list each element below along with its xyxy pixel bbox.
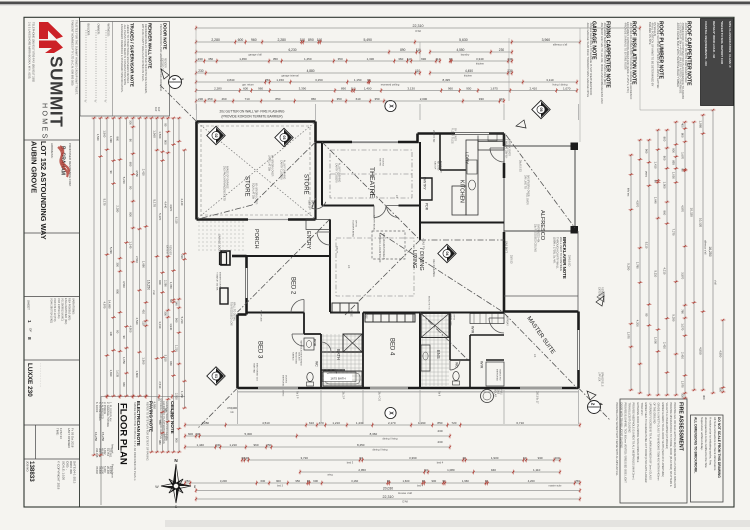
svg-text:3,150: 3,150 [315, 78, 323, 82]
svg-text:RENDER: RENDER [600, 287, 603, 297]
bottom dimension rows [185, 424, 580, 426]
svg-text:15,250: 15,250 [101, 432, 105, 442]
svg-text:3,960: 3,960 [542, 38, 551, 42]
ens wc [453, 372, 459, 381]
svg-text:PANTRY: PANTRY [423, 177, 427, 191]
svg-text:CKD: ,: CKD: , [65, 461, 69, 470]
svg-text:LOT 152 ASTOUNDING WAY: LOT 152 ASTOUNDING WAY [39, 141, 48, 240]
svg-text:6,230: 6,230 [289, 48, 297, 52]
svg-text:300: 300 [702, 395, 706, 400]
svg-text:GAS UP: GAS UP [433, 161, 436, 170]
svg-text:230: 230 [198, 97, 203, 101]
svg-text:COLINS: COLINS [381, 158, 383, 167]
svg-text:UPGRADE FLYSCREENS TO ALUMINIU: UPGRADE FLYSCREENS TO ALUMINIUM (MESH OF… [648, 403, 651, 481]
svg-text:10,320: 10,320 [689, 208, 693, 218]
svg-text:8: 8 [26, 337, 32, 340]
svg-text:BATH: BATH [336, 349, 341, 360]
svg-text:1,150: 1,150 [169, 282, 173, 289]
svg-text:250: 250 [208, 97, 213, 101]
svg-text:4,550: 4,550 [456, 48, 464, 52]
svg-text:LS: LS [395, 195, 399, 198]
svg-text:4,450: 4,450 [465, 69, 473, 73]
svg-text:4,200: 4,200 [636, 320, 640, 327]
svg-text:bed 3: bed 3 [277, 485, 284, 488]
svg-text:EMBER SEAL TO GARAGE PANEL LIF: EMBER SEAL TO GARAGE PANEL LIFT DOOR (4 … [644, 403, 647, 483]
svg-text:5,170: 5,170 [152, 199, 156, 207]
svg-text:460: 460 [222, 97, 227, 101]
svg-text:960: 960 [258, 86, 263, 90]
svg-text:*REFER TO SOIL REPORT FOR: *REFER TO SOIL REPORT FOR [720, 21, 724, 65]
svg-text:alfresco o'all: alfresco o'all [553, 43, 568, 47]
svg-text:2,950: 2,950 [358, 468, 366, 472]
svg-text:VARIATIONS:: VARIATIONS: [72, 298, 76, 315]
risers to dim rows [237, 390, 239, 424]
theatre front window [352, 141, 398, 143]
svg-text:90: 90 [116, 330, 120, 334]
svg-text:960: 960 [663, 210, 667, 215]
svg-text:VG 29/08/13 (KMC): VG 29/08/13 (KMC) [60, 298, 64, 321]
svg-text:690: 690 [421, 57, 426, 61]
svg-text:950: 950 [311, 97, 316, 101]
svg-text:BED 4: BED 4 [389, 338, 395, 356]
svg-text:4,880: 4,880 [307, 69, 315, 73]
svg-text:20c GUTTER ON WALL W/- FIRE FL: 20c GUTTER ON WALL W/- FIRE FLASHING [220, 110, 285, 114]
entry door [317, 232, 330, 245]
svg-text:NK- LISO: NK- LISO [436, 161, 438, 171]
svg-text:900: 900 [158, 280, 162, 285]
svg-text:VO#6 28/07/14 (SKE): VO#6 28/07/14 (SKE) [50, 298, 54, 323]
svg-text:MENTIONED CLG: MENTIONED CLG [255, 363, 257, 382]
svg-text:4,970: 4,970 [169, 204, 173, 211]
svg-text:EXTERNAL ROOF PLUMBING NON-COM: EXTERNAL ROOF PLUMBING NON-COMBUSTIBLE [636, 403, 639, 463]
svg-text:PROP LINE: PROP LINE [259, 310, 261, 322]
left dimension columns [93, 118, 95, 455]
svg-text:ALL DIMENSIONS TO BRICKWORK.: ALL DIMENSIONS TO BRICKWORK. [694, 417, 698, 473]
svg-text:2,280: 2,280 [277, 38, 286, 42]
svg-text:wing: wing [327, 473, 333, 477]
svg-text:PORCH: PORCH [253, 229, 259, 249]
svg-text:230: 230 [437, 429, 442, 433]
svg-text:TIME:: TIME: [55, 428, 59, 436]
letterbox pier [220, 253, 227, 265]
svg-text:pwry: pwry [645, 171, 649, 178]
svg-text:16,250: 16,250 [147, 280, 151, 290]
svg-text:5,210: 5,210 [122, 177, 126, 184]
svg-text:8,360: 8,360 [370, 432, 378, 436]
svg-text:960: 960 [164, 408, 168, 413]
svg-text:600: 600 [313, 479, 318, 483]
svg-text:3,360: 3,360 [409, 456, 417, 460]
svg-text:110: 110 [142, 321, 146, 326]
svg-text:/ /: / / [84, 100, 88, 102]
svg-text:ROBE: ROBE [349, 310, 352, 317]
svg-text:610: 610 [356, 97, 361, 101]
windows on exterior walls [258, 386, 298, 390]
svg-text:CEILING: CEILING [297, 352, 299, 361]
svg-text:300: 300 [164, 311, 168, 316]
section marker 3/1 [169, 76, 182, 89]
svg-text:720: 720 [451, 421, 456, 425]
exterior walls [197, 120, 316, 123]
svg-text:3,840: 3,840 [227, 78, 235, 82]
svg-text:AV B'ROOD: AV B'ROOD [439, 161, 442, 173]
svg-text:1,300: 1,300 [164, 433, 168, 440]
svg-text:1,000: 1,000 [654, 337, 658, 344]
svg-text:300: 300 [681, 393, 685, 398]
svg-text:780: 780 [681, 309, 685, 314]
svg-text:1,810: 1,810 [109, 370, 113, 377]
svg-text:2045.5 SD: 2045.5 SD [432, 130, 436, 142]
svg-text:OVERSIZED 40k: OVERSIZED 40k [536, 224, 539, 243]
svg-text:03: 03 [282, 136, 286, 140]
marker D3 diamond [275, 128, 293, 146]
svg-text:SOLAR: SOLAR [493, 389, 496, 397]
svg-text:960: 960 [175, 318, 179, 323]
svg-text:600: 600 [261, 479, 266, 483]
svg-text:ENTRY: ENTRY [305, 231, 311, 250]
bath wc [307, 373, 313, 382]
svg-text:350: 350 [375, 97, 380, 101]
svg-text:-ROOF FRAME BUILT WITH 'WESPIN: -ROOF FRAME BUILT WITH 'WESPINE BLUE' TI… [676, 22, 680, 87]
svg-text:8,495: 8,495 [443, 78, 451, 82]
solar gas hwu [481, 390, 494, 403]
svg-text:8,450: 8,450 [357, 443, 365, 447]
svg-text:1,600: 1,600 [402, 479, 409, 483]
svg-text:SUMMIT: SUMMIT [47, 56, 67, 127]
svg-text:1,800: 1,800 [135, 371, 139, 378]
svg-text:W/- B'WORK OVER: W/- B'WORK OVER [254, 183, 257, 205]
svg-text:900: 900 [164, 140, 168, 145]
pantry [420, 178, 432, 200]
kitchen island [452, 186, 466, 215]
svg-text:5,290: 5,290 [627, 263, 631, 270]
svg-text:GYP30: GYP30 [452, 313, 454, 321]
svg-text:90: 90 [164, 123, 168, 127]
svg-text:1,210: 1,210 [332, 421, 340, 425]
paving edge below bottom wall [238, 391, 579, 393]
svg-text:PROVIDE GAL OR SELF-EXTING REQ: PROVIDE GAL OR SELF-EXTING REQUIREMENTS … [673, 403, 676, 489]
svg-text:250: 250 [185, 479, 190, 483]
svg-text:410: 410 [142, 309, 146, 314]
svg-text:04: 04 [445, 252, 449, 256]
svg-text:ALUM FLASHING: ALUM FLASHING [337, 163, 340, 182]
svg-text:O'All: O'All [415, 29, 421, 33]
svg-text:TELEPHONE (08) 9317 0700 FAX (: TELEPHONE (08) 9317 0700 FAX (08) 9317 2… [31, 22, 35, 83]
svg-text:960: 960 [116, 136, 120, 141]
svg-text:B&W 5.: B&W 5. [307, 200, 310, 208]
svg-text:250: 250 [575, 479, 580, 483]
svg-text:690: 690 [129, 162, 133, 167]
svg-text:1,790: 1,790 [636, 262, 640, 269]
svg-text:dining / living: dining / living [373, 448, 389, 452]
svg-text:RENDER: RENDER [163, 58, 165, 68]
bath tub [323, 371, 362, 386]
svg-text:3: 3 [172, 78, 177, 81]
svg-text:1,560: 1,560 [142, 357, 146, 364]
svg-text:960: 960 [253, 443, 258, 447]
bed2 door [291, 300, 304, 313]
svg-text:MIRRORED: MIRRORED [495, 369, 497, 381]
svg-text:POR: POR [313, 339, 317, 347]
svg-text:890: 890 [400, 48, 406, 52]
svg-text:230: 230 [198, 57, 203, 61]
svg-text:PROVIDE MINIMUM 6000L TO STORE: PROVIDE MINIMUM 6000L TO STORE, ROOF (PL… [669, 403, 672, 487]
svg-text:PDR: PDR [425, 203, 429, 211]
svg-text:610: 610 [309, 421, 314, 425]
svg-text:LS: LS [533, 354, 537, 357]
svg-text:90: 90 [122, 336, 126, 340]
svg-text:WC: WC [315, 361, 319, 367]
svg-text:2,280: 2,280 [214, 86, 222, 90]
svg-text:-65k SKIRT AND 'HAL TO, ALL 90: -65k SKIRT AND 'HAL TO, ALL 90k, MORE AN… [600, 22, 604, 104]
ldry bench [478, 134, 504, 142]
svg-text:960: 960 [645, 149, 649, 154]
svg-text:2ND PACK ARRANGEMENT TO: 2ND PACK ARRANGEMENT TO [222, 166, 225, 201]
svg-text:230: 230 [198, 69, 204, 73]
svg-text:960: 960 [448, 86, 453, 90]
svg-text:300: 300 [129, 120, 133, 125]
svg-text:1,190: 1,190 [418, 421, 426, 425]
svg-text:FLOOR TILES: FLOOR TILES [450, 128, 453, 144]
svg-text:4,440: 4,440 [180, 198, 184, 205]
hall wall [363, 312, 420, 314]
robes [332, 303, 358, 312]
svg-text:-FALL GARAGE SLAB 20mm TOWARDS: -FALL GARAGE SLAB 20mm TOWARDS MAIN GARA… [586, 22, 590, 97]
svg-text:960: 960 [158, 420, 162, 425]
svg-text:DATE:04-1-2013: DATE:04-1-2013 [72, 461, 76, 484]
svg-text:o'all: o'all [152, 290, 156, 295]
svg-text:1,140: 1,140 [129, 241, 133, 248]
svg-text:FIRE ASSESSMENT: FIRE ASSESSMENT [677, 402, 683, 452]
theatre recessed ceiling [330, 150, 412, 198]
svg-text:kitchen: kitchen [476, 62, 485, 66]
svg-text:3,510: 3,510 [164, 355, 168, 362]
svg-text:4,550: 4,550 [719, 350, 723, 357]
svg-text:garage internal: garage internal [281, 74, 299, 78]
svg-text:2,410: 2,410 [142, 169, 146, 176]
svg-text:2,410: 2,410 [530, 86, 538, 90]
svg-text:950: 950 [116, 289, 120, 294]
svg-text:1,030: 1,030 [672, 172, 676, 179]
svg-text:90: 90 [169, 299, 173, 303]
svg-text:340: 340 [175, 301, 179, 306]
marker 01 diamond [207, 367, 225, 385]
ens shower [421, 314, 449, 338]
svg-text:DOOR WITH TRANSLUCENT GLAZING: DOOR WITH TRANSLUCENT GLAZING [619, 403, 622, 448]
floor plan schedule and notes [101, 396, 185, 398]
svg-text:WC: WC [455, 362, 459, 368]
svg-text:600: 600 [243, 86, 248, 90]
marker X top circle [385, 100, 396, 111]
svg-text:1,560: 1,560 [96, 134, 100, 141]
svg-text:600: 600 [188, 432, 193, 436]
svg-text:1,150: 1,150 [180, 391, 184, 398]
svg-text:ENS: ENS [436, 350, 441, 359]
svg-text:4,200: 4,200 [528, 479, 535, 483]
svg-text:DOORS: DOORS [284, 375, 286, 384]
svg-text:1,675: 1,675 [490, 86, 498, 90]
master door [489, 318, 504, 333]
svg-text:1,690: 1,690 [142, 261, 146, 268]
svg-text:KARIFM BkVAL: KARIFM BkVAL [372, 215, 375, 231]
laundry/kitchen area [439, 134, 441, 171]
svg-text:22,310: 22,310 [413, 24, 424, 28]
svg-text:20/0 SD: 20/0 SD [509, 255, 512, 264]
svg-text:OF THE GROUND: OF THE GROUND [652, 403, 655, 424]
section marker 2/4 bottom right [588, 401, 601, 414]
svg-text:90: 90 [129, 139, 133, 143]
svg-text:3,720: 3,720 [300, 456, 308, 460]
svg-text:dining / living: dining / living [383, 437, 399, 441]
bath tiles [197, 104, 581, 424]
svg-text:Nb 3 P: Nb 3 P [295, 391, 298, 399]
svg-text:90: 90 [645, 313, 649, 317]
svg-text:BAY 8: BAY 8 [310, 200, 313, 207]
svg-text:O'All: O'All [402, 500, 408, 504]
robes [332, 303, 358, 312]
svg-text:1: 1 [26, 320, 32, 323]
svg-text:350: 350 [337, 97, 342, 101]
svg-text:STORE: STORE [244, 176, 250, 197]
svg-text:1,210: 1,210 [229, 443, 237, 447]
svg-text:TRANSLUCENT GLAZING: TRANSLUCENT GLAZING [628, 403, 631, 433]
north compass rose [173, 464, 179, 486]
svg-text:6,710: 6,710 [516, 421, 524, 425]
svg-text:960: 960 [251, 38, 257, 42]
living dash walls [419, 223, 421, 241]
alfresco pier top [571, 143, 579, 151]
marker D5 diamond [532, 100, 550, 118]
svg-text:230: 230 [180, 254, 184, 259]
svg-text:LS: LS [347, 265, 351, 268]
svg-text:31c RECESSED CEILING: 31c RECESSED CEILING [533, 224, 536, 252]
svg-text:1,400: 1,400 [364, 86, 372, 90]
svg-text:4,510: 4,510 [262, 421, 270, 425]
svg-text:GAS BAYT: GAS BAYT [504, 241, 507, 253]
svg-text:4,550: 4,550 [135, 170, 139, 177]
svg-text:1,050: 1,050 [122, 357, 126, 364]
top dimension rows [196, 27, 640, 29]
svg-text:SMOKE DETECTOR TO BS.CA. S.T.2: SMOKE DETECTOR TO BS.CA. S.T.2. AS INDIC… [133, 402, 137, 481]
svg-text:SWR/TAB: SWR/TAB [252, 363, 255, 373]
svg-text:LDRY: LDRY [465, 152, 470, 164]
hall wall [363, 312, 420, 314]
theatre walls [321, 142, 323, 206]
svg-text:GB/TFE: GB/TFE [378, 158, 380, 166]
svg-text:05: 05 [539, 108, 543, 112]
svg-text:1,440: 1,440 [196, 443, 204, 447]
svg-text:ENGINEERS DRAWINGS & STANDARD: ENGINEERS DRAWINGS & STANDARD SPECIFICAT… [120, 24, 124, 93]
svg-text:230: 230 [437, 440, 442, 444]
master suite block [504, 310, 579, 313]
svg-text:1,430: 1,430 [356, 421, 364, 425]
svg-text:900: 900 [129, 212, 133, 217]
svg-text:90: 90 [109, 171, 113, 175]
svg-text:House o'all: House o'all [398, 491, 412, 495]
alfresco outline [504, 145, 575, 147]
svg-text:1,940: 1,940 [169, 323, 173, 330]
svg-text:WALL TO DETAIL: WALL TO DETAIL [232, 302, 235, 322]
east exterior wall (alfresco side) [503, 134, 506, 147]
garage left wall [195, 122, 198, 220]
svg-text:HAMA N.: HAMA N. [291, 352, 294, 361]
svg-text:850: 850 [275, 97, 280, 101]
svg-text:334.938: 334.938 [95, 448, 99, 458]
svg-text:1,150: 1,150 [276, 78, 284, 82]
site classification black box [701, 19, 734, 106]
svg-text:GRADE A SAFETY GLASS TO WINDOW: GRADE A SAFETY GLASS TO WINDOWS 750kf 40… [657, 403, 660, 481]
svg-text:ENSUITE T/G: ENSUITE T/G [427, 296, 429, 310]
svg-text:890: 890 [341, 86, 346, 90]
svg-text:31c CEILING: 31c CEILING [432, 259, 436, 277]
fire assessment box [620, 399, 687, 503]
svg-text:800: 800 [681, 133, 685, 138]
garage->entry door [312, 202, 326, 209]
svg-text:Fri 05 Oct 2018: Fri 05 Oct 2018 [70, 428, 74, 448]
svg-text:2,170: 2,170 [388, 421, 396, 425]
svg-text:1,070: 1,070 [627, 332, 631, 339]
svg-text:OWNER:: OWNER: [96, 24, 100, 35]
svg-text:22,310: 22,310 [383, 495, 394, 499]
svg-text:SWING RO: SWING RO [498, 369, 500, 381]
svg-text:470: 470 [319, 421, 324, 425]
bath shower X [343, 334, 362, 352]
svg-text:855: 855 [672, 160, 676, 165]
svg-text:WIR: WIR [479, 361, 483, 369]
svg-text:1,330: 1,330 [367, 57, 375, 61]
ens door [450, 360, 460, 370]
svg-text:3,510: 3,510 [122, 281, 126, 288]
do not scale box [691, 415, 724, 502]
svg-text:1,670: 1,670 [681, 152, 685, 159]
marker D4 diamond [438, 244, 456, 262]
svg-text:14,690: 14,690 [107, 300, 111, 309]
svg-text:THAN 2mm: THAN 2mm [640, 403, 643, 416]
svg-text:alfresco o'all: alfresco o'all [704, 240, 708, 255]
svg-text:2,280: 2,280 [211, 38, 220, 42]
svg-text:3,200: 3,200 [220, 479, 227, 483]
svg-text:2,510: 2,510 [175, 393, 179, 400]
svg-text:PROVIDE BUSHFIRE, TICK 600mm V: PROVIDE BUSHFIRE, TICK 600mm VENTED / DR… [623, 403, 626, 484]
svg-text:3,010: 3,010 [169, 410, 173, 417]
svg-text:3,570: 3,570 [681, 272, 685, 279]
svg-text:3,010: 3,010 [158, 321, 162, 328]
svg-text:2,510: 2,510 [135, 256, 139, 263]
svg-text:T/ BAR AT 25k WK: T/ BAR AT 25k WK [215, 272, 218, 291]
svg-text:EXTENT OF: EXTENT OF [160, 58, 162, 71]
ens tiles [197, 104, 581, 424]
svg-text:4,440: 4,440 [164, 201, 168, 208]
svg-text:5,290: 5,290 [672, 314, 676, 321]
theatre double doors [374, 206, 386, 218]
svg-text:EQUAL AT 25k: EQUAL AT 25k [251, 183, 254, 200]
svg-text:DIV LINE TO: DIV LINE TO [523, 175, 526, 189]
svg-text:B'WORK OVER: B'WORK OVER [218, 272, 220, 288]
master robes [470, 314, 504, 324]
svg-text:3,110: 3,110 [546, 78, 554, 82]
svg-text:90: 90 [654, 180, 658, 184]
svg-text:SOLAR HWS PANELS: SOLAR HWS PANELS [382, 233, 386, 260]
svg-text:900: 900 [431, 479, 436, 483]
windows on exterior walls [258, 386, 298, 390]
svg-text:110: 110 [415, 69, 420, 73]
svg-text:APPROX. LOCATION OF: APPROX. LOCATION OF [378, 233, 382, 263]
entry/bed2 walls [329, 220, 331, 257]
svg-text:laundry: laundry [461, 53, 470, 57]
svg-text:IMAGE OF GARAGE: IMAGE OF GARAGE [225, 166, 228, 189]
svg-text:AUBIN GROVE: AUBIN GROVE [30, 141, 39, 193]
svg-text:5,110: 5,110 [654, 270, 658, 277]
